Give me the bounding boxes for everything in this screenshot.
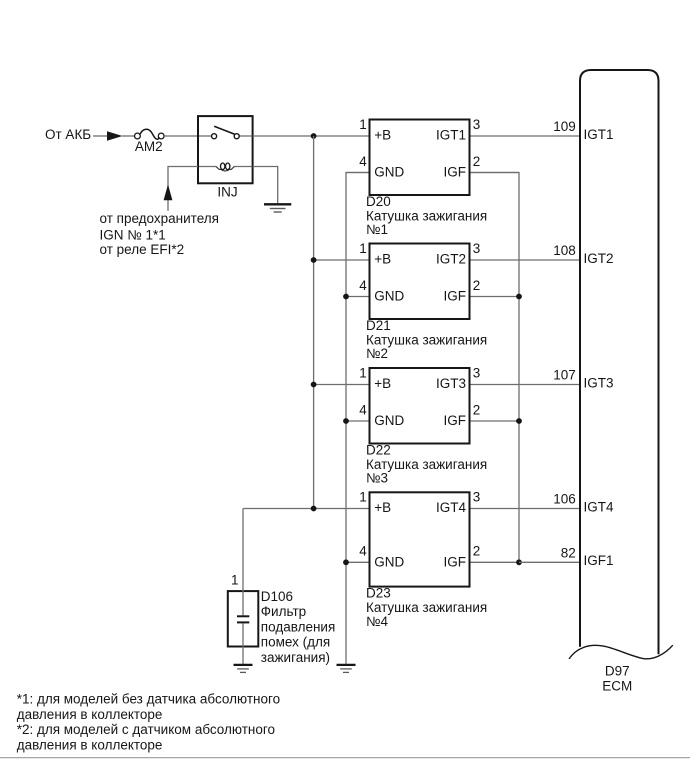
svg-text:4: 4: [359, 278, 367, 293]
svg-text:1: 1: [359, 490, 367, 505]
junction IGF bus at coil D23: [516, 559, 522, 565]
wire +B bus to coil D22 pin 1: [314, 384, 370, 386]
+B distribution bus (vertical): [313, 136, 315, 509]
svg-text:3: 3: [473, 241, 481, 256]
svg-text:Катушка зажигания: Катушка зажигания: [366, 332, 487, 347]
reference label D22 Катушка зажигания №3: [366, 443, 487, 486]
svg-text:GND: GND: [374, 165, 404, 180]
ground (noise filter D106): [234, 665, 253, 673]
svg-text:От АКБ: От АКБ: [45, 127, 91, 142]
svg-text:давления в коллекторе: давления в коллекторе: [17, 707, 163, 722]
bottom rule: [0, 757, 690, 759]
svg-text:+B: +B: [374, 251, 391, 266]
svg-text:106: 106: [553, 492, 576, 507]
svg-text:IGF: IGF: [444, 289, 467, 304]
footnote *1 / *2: [17, 691, 280, 752]
svg-text:4: 4: [359, 154, 367, 169]
svg-text:IGT3: IGT3: [584, 375, 614, 390]
wire IGT4 coil D23 pin 3 to ECM pin 106: [470, 508, 581, 510]
capacitor D106 noise filter (box): [228, 591, 258, 646]
svg-text:2: 2: [473, 154, 481, 169]
wire relay coil to fuse note branch: [168, 167, 198, 211]
junction GND bus at coil D22: [343, 418, 349, 424]
svg-text:№1: №1: [366, 222, 388, 237]
svg-text:IGT1: IGT1: [436, 127, 466, 142]
svg-text:82: 82: [561, 546, 576, 561]
svg-text:D21: D21: [366, 318, 391, 333]
wire IGT2 coil D21 pin 3 to ECM pin 108: [470, 259, 581, 261]
junction +B bus at coil D23: [311, 506, 317, 512]
junction GND bus at coil D23: [343, 559, 349, 565]
svg-text:1: 1: [359, 117, 367, 132]
ignition coil D21 (Катушка зажигания №2): [370, 244, 470, 320]
svg-text:AM2: AM2: [135, 139, 163, 154]
wire noise filter / +B bus to coil D23 pin 1: [243, 508, 370, 510]
ground (coil GND bus): [337, 665, 356, 673]
svg-text:108: 108: [553, 243, 576, 258]
svg-text:№2: №2: [366, 346, 388, 361]
svg-text:IGN № 1*1: IGN № 1*1: [100, 227, 166, 242]
svg-text:*2: для моделей с датчиком абс: *2: для моделей с датчиком абсолютного: [17, 722, 275, 737]
svg-text:2: 2: [473, 402, 481, 417]
svg-text:4: 4: [359, 544, 367, 559]
svg-text:3: 3: [473, 117, 481, 132]
wire GND stub coil D21 pin 4: [346, 296, 370, 298]
ECM torn edge (wavy): [569, 645, 673, 659]
wire IGF coil D22 pin 2 to IGF bus: [470, 420, 520, 422]
wire arrow to fuse AM2: [122, 135, 135, 137]
wire +B branch down into filter: [242, 509, 244, 616]
wire IGF coil D23 pin 2 to IGF bus: [470, 561, 520, 563]
svg-text:IGF: IGF: [444, 165, 467, 180]
svg-text:IGT2: IGT2: [436, 251, 466, 266]
junction IGF bus at coil D21: [516, 294, 522, 300]
svg-text:IGT3: IGT3: [436, 376, 466, 391]
net label: от предохранителя IGN №1*1 / от реле EFI*2: [100, 211, 219, 257]
wire IGF bus to ECM pin 82 (IGF1): [519, 561, 580, 563]
svg-text:+B: +B: [374, 127, 391, 142]
wire fuse to relay INJ: [164, 135, 198, 137]
ignition coil D20 (Катушка зажигания №1): [370, 120, 470, 196]
svg-text:1: 1: [359, 366, 367, 381]
svg-text:№3: №3: [366, 471, 388, 486]
svg-text:давления в коллекторе: давления в коллекторе: [17, 738, 163, 753]
svg-text:D20: D20: [366, 194, 391, 209]
svg-text:№4: №4: [366, 614, 388, 629]
junction +B bus at coil D22: [311, 382, 317, 388]
svg-text:GND: GND: [374, 289, 404, 304]
svg-text:D106: D106: [261, 589, 293, 604]
svg-text:2: 2: [473, 544, 481, 559]
svg-text:IGF1: IGF1: [584, 553, 614, 568]
wire GND stub coil D20 pin 4: [346, 172, 370, 174]
svg-text:2: 2: [473, 278, 481, 293]
wire IGF coil D20 pin 2 to IGF bus: [470, 172, 520, 174]
svg-text:D97: D97: [605, 663, 630, 678]
arrow (up, from fuse note into relay coil): [164, 185, 173, 201]
wire relay to ignition coil no.1 +B: [253, 135, 370, 137]
svg-text:IGT4: IGT4: [436, 500, 466, 515]
wire relay coil to ground: [253, 167, 278, 204]
reference label D23 Катушка зажигания №4: [366, 586, 487, 629]
GND bus (vertical, to ground): [346, 173, 370, 664]
reference label D21 Катушка зажигания №2: [366, 318, 487, 361]
relay INJ coil: [199, 163, 252, 171]
wire +B bus to coil D21 pin 1: [314, 259, 370, 261]
arrow (power flow into fuse AM2): [107, 131, 123, 140]
svg-text:зажигания): зажигания): [261, 650, 330, 665]
ground (relay INJ): [264, 204, 291, 212]
wire IGF coil D21 pin 2 to IGF bus: [470, 296, 520, 298]
svg-text:помех (для: помех (для: [261, 635, 330, 650]
fuse AM2: [135, 129, 165, 139]
relay INJ switch contacts and lever: [199, 126, 252, 138]
junction +B bus at coil D21: [311, 257, 317, 263]
junction IGF bus at coil D22: [516, 418, 522, 424]
wire GND stub coil D22 pin 4: [346, 420, 370, 422]
capacitor plates D106: [237, 616, 249, 622]
ignition coil D23 (Катушка зажигания №4): [370, 492, 470, 586]
svg-text:INJ: INJ: [217, 185, 237, 200]
svg-text:IGT4: IGT4: [584, 499, 614, 514]
reference label D106 Фильтр подавления помех (для зажигания): [261, 589, 335, 665]
relay INJ (box): [198, 116, 253, 183]
svg-text:от предохранителя: от предохранителя: [100, 211, 219, 226]
svg-text:ECM: ECM: [602, 679, 632, 694]
svg-text:IGT2: IGT2: [584, 251, 614, 266]
svg-text:*1: для моделей без датчика аб: *1: для моделей без датчика абсолютного: [17, 691, 280, 706]
svg-text:IGF: IGF: [444, 413, 467, 428]
svg-text:Фильтр: Фильтр: [261, 604, 306, 619]
ignition coil D22 (Катушка зажигания №3): [370, 368, 470, 444]
svg-text:Катушка зажигания: Катушка зажигания: [366, 457, 487, 472]
svg-text:109: 109: [553, 119, 576, 134]
wire from battery label to arrow: [93, 135, 108, 137]
junction GND bus at coil D21: [343, 294, 349, 300]
svg-text:3: 3: [473, 366, 481, 381]
wire IGT1 coil D20 pin 3 to ECM pin 109: [470, 135, 581, 137]
wire IGT3 coil D22 pin 3 to ECM pin 107: [470, 384, 581, 386]
reference label D97 ECM: [602, 663, 632, 693]
svg-text:4: 4: [359, 402, 367, 417]
svg-text:IGT1: IGT1: [584, 127, 614, 142]
wire filter to ground: [242, 623, 244, 664]
svg-text:+B: +B: [374, 376, 391, 391]
svg-text:D23: D23: [366, 586, 391, 601]
IGF bus (vertical): [470, 173, 520, 563]
svg-text:1: 1: [231, 572, 239, 587]
svg-text:подавления: подавления: [261, 619, 335, 634]
svg-text:GND: GND: [374, 413, 404, 428]
svg-text:1: 1: [359, 241, 367, 256]
svg-text:107: 107: [553, 368, 576, 383]
ECM D97 (connector outline, torn bottom): [580, 70, 659, 654]
junction +B bus top: [311, 133, 317, 139]
svg-text:Катушка зажигания: Катушка зажигания: [366, 208, 487, 223]
svg-text:3: 3: [473, 490, 481, 505]
svg-text:GND: GND: [374, 554, 404, 569]
svg-text:Катушка зажигания: Катушка зажигания: [366, 600, 487, 615]
wire GND stub coil D23 pin 4: [346, 561, 370, 563]
svg-text:+B: +B: [374, 500, 391, 515]
svg-text:D22: D22: [366, 443, 391, 458]
svg-text:от реле EFI*2: от реле EFI*2: [100, 242, 185, 257]
svg-text:IGF: IGF: [444, 554, 467, 569]
reference label D20 Катушка зажигания №1: [366, 194, 487, 237]
